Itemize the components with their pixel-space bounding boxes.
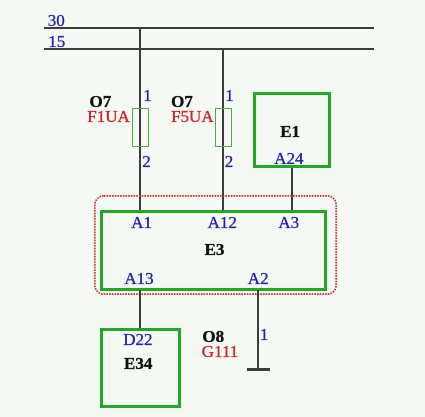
pin 2 (fuse 1): [142, 153, 151, 170]
label O7 (fuse 2): [171, 93, 193, 110]
pin 1 (ground): [260, 326, 269, 343]
label G111: [202, 343, 239, 360]
label O8: [202, 328, 224, 345]
component E3: [100, 210, 327, 291]
wire from bus 30 through fuse F1UA to E3 pin A1: [139, 27, 141, 210]
pin D22: [123, 331, 152, 348]
node 30: [48, 12, 65, 29]
fuse O7 F1UA: [132, 108, 149, 147]
component E1: [253, 92, 331, 168]
pin A1: [131, 214, 152, 231]
label O7 (fuse 1): [90, 93, 112, 110]
pin 1 (fuse 1): [143, 87, 152, 104]
pin A12: [208, 214, 237, 231]
label F1UA: [87, 108, 130, 125]
pin A2: [248, 270, 269, 287]
ground G111 symbol: [247, 368, 269, 372]
label E34: [124, 355, 152, 372]
label E1: [280, 123, 300, 140]
pin A13: [124, 270, 153, 287]
wire E1 pin A24 to E3 pin A3: [291, 168, 293, 210]
pin 1 (fuse 2): [225, 87, 234, 104]
label E3: [205, 241, 225, 258]
fuse O7 F5UA: [215, 108, 232, 147]
node 15: [48, 33, 65, 50]
label F5UA: [171, 108, 214, 125]
dashed boundary around E3: [94, 195, 337, 295]
wire bus 15: [44, 48, 374, 50]
wire from bus 15 through fuse F5UA to E3 pin A12: [222, 48, 224, 210]
component E34: [100, 328, 181, 408]
pin A24: [274, 150, 303, 167]
pin A3: [278, 214, 299, 231]
wire bus 30: [44, 27, 374, 29]
wire E3 pin A13 to E34 pin D22: [139, 290, 141, 329]
wire E3 pin A2 to ground G111: [257, 290, 259, 368]
pin 2 (fuse 2): [225, 153, 234, 170]
